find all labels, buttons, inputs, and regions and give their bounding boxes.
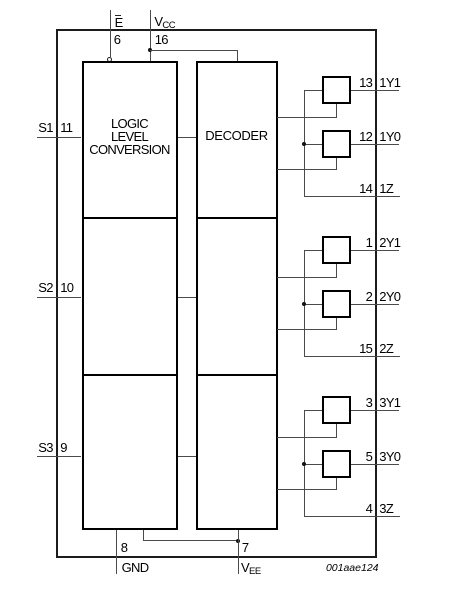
wire 3Z common bus (304, 410, 305, 517)
logic level conversion block box (82, 61, 178, 530)
wire S2 pin stub (37, 297, 82, 298)
junction VEE (236, 539, 240, 543)
wire S1B control from decoder (277, 169, 337, 170)
pin number 3 (366, 395, 373, 410)
wire 3Y0 switch left lead (304, 464, 323, 465)
pin number 4 (366, 501, 373, 516)
wire S3B control from decoder (277, 489, 337, 490)
wire VCC branch drop to decoder (237, 50, 238, 61)
pin number 15 (359, 341, 372, 356)
pin number 14 (359, 181, 372, 196)
label VEE (241, 560, 261, 577)
pin number 5 (366, 449, 373, 464)
wire S1 pin stub (37, 137, 82, 138)
label 3Y0 (379, 449, 400, 464)
switch S3B (3Y0) (322, 450, 351, 478)
wire 3Y1 switch left lead (304, 410, 323, 411)
wire 2Z common bus (304, 250, 305, 357)
label 3Z (379, 501, 393, 516)
label 1Z (379, 181, 393, 196)
logic block divider 2 (82, 374, 178, 376)
wire S3 logic-to-decoder connector (178, 456, 196, 457)
wire S1A control from decoder (277, 117, 337, 118)
wire 1Y0 switch left lead (304, 144, 323, 145)
wire VCC branch horizontal (150, 50, 238, 51)
label LOGIC LEVEL CONVERSION (82, 117, 178, 156)
wire VEE connector horizontal (144, 540, 239, 541)
wire S2B control from decoder (277, 329, 337, 330)
wire S1 logic-to-decoder connector (178, 137, 196, 138)
label 2Y0 (379, 289, 400, 304)
wire S2A control drop (336, 264, 337, 277)
wire VEE connector from logic block (143, 530, 144, 541)
wire E-bar pin 6 vertical (110, 10, 111, 58)
decoder block divider 1 (196, 217, 278, 219)
wire 3Y0 output stub (351, 464, 399, 465)
label 1Y0 (379, 129, 400, 144)
wire S2A control from decoder (277, 277, 337, 278)
switch S2A (2Y1) (322, 236, 351, 264)
label 2Y1 (379, 235, 400, 250)
decoder block divider 2 (196, 374, 278, 376)
pin number 12 (359, 129, 372, 144)
wire 1Y1 switch left lead (304, 90, 323, 91)
logic block divider 1 (82, 217, 178, 219)
wire 2Y0 switch left lead (304, 304, 323, 305)
switch S2B (2Y0) (322, 290, 351, 318)
pin number 6 (114, 32, 121, 47)
label VCC (154, 14, 175, 31)
wire VEE pin 7 vertical (238, 530, 239, 574)
wire S2B control drop (336, 318, 337, 329)
wire 2Z output line (304, 356, 400, 357)
label 2Z (379, 341, 393, 356)
wire 1Y1 output stub (351, 90, 399, 91)
switch S1A (1Y1) (322, 76, 351, 104)
pin number 16 (155, 32, 168, 47)
label DECODER (196, 128, 278, 143)
label GND (122, 560, 149, 575)
wire S3B control drop (336, 478, 337, 489)
drawing id 001aae124 (326, 562, 379, 574)
switch S1B (1Y0) (322, 130, 351, 158)
wire GND pin 8 vertical (116, 530, 117, 574)
wire 3Y1 output stub (351, 410, 399, 411)
junction VCC branch (148, 48, 152, 52)
wire 1Y0 output stub (351, 144, 399, 145)
pin number 10 (60, 280, 73, 295)
wire S3A control drop (336, 424, 337, 437)
junction 2Z bus to 2Y0 (302, 302, 306, 306)
label E-bar (115, 15, 123, 30)
wire 2Y1 output stub (351, 250, 399, 251)
pin number 9 (60, 440, 67, 455)
wire 2Y0 output stub (351, 304, 399, 305)
junction 3Z bus to 3Y0 (302, 462, 306, 466)
decoder block box (196, 61, 278, 530)
inversion bubble on E input (107, 57, 112, 62)
wire 3Z output line (304, 516, 400, 517)
wire S1B control drop (336, 158, 337, 169)
label S1 (38, 120, 53, 135)
pin number 7 (242, 540, 249, 555)
wire S3 pin stub (37, 456, 82, 457)
wire VCC pin 16 vertical (150, 10, 151, 62)
label 3Y1 (379, 395, 400, 410)
wire 2Y1 switch left lead (304, 250, 323, 251)
pin number 2 (366, 289, 373, 304)
wire 1Z output line (304, 196, 400, 197)
wire S2 logic-to-decoder connector (178, 297, 196, 298)
pin number 13 (359, 75, 372, 90)
label 1Y1 (379, 75, 400, 90)
label S3 (38, 440, 53, 455)
pin number 8 (121, 540, 128, 555)
pin number 11 (60, 120, 72, 135)
label S2 (38, 280, 53, 295)
wire S3A control from decoder (277, 437, 337, 438)
pin number 1 (366, 235, 373, 250)
switch S3A (3Y1) (322, 396, 351, 424)
wire S1A control drop (336, 104, 337, 117)
IC outer boundary rectangle (56, 29, 377, 558)
junction 1Z bus to 1Y0 (302, 142, 306, 146)
wire 1Z common bus (304, 90, 305, 197)
overbar of E (115, 15, 122, 16)
